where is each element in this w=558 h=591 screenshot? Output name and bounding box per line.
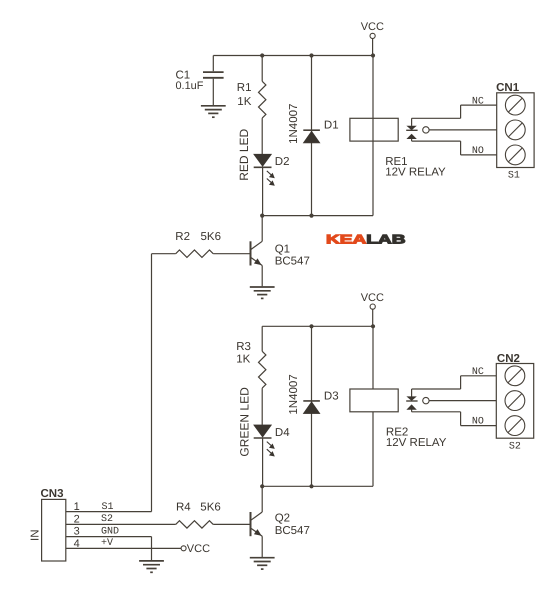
wire NO (RE2 to CN2) [412,412,497,426]
svg-text:1N4007: 1N4007 [288,104,300,144]
label D4 [275,427,290,439]
svg-text:BC547: BC547 [275,525,310,537]
wire top rail stage 2 [262,325,373,327]
label D1 [324,120,339,132]
svg-text:+V: +V [101,538,113,549]
relay RE1 contact (SPDT arm) [406,118,429,141]
label CN3 [41,488,64,500]
value 5K6 (R4) [200,501,220,513]
wire NC (RE1 to CN1) [412,105,497,118]
value 1K (R3) [236,353,250,365]
svg-text:12V RELAY: 12V RELAY [386,437,447,449]
wire relay RE1 coil column [372,56,374,216]
svg-text:D2: D2 [275,156,290,168]
label +V (CN3 pin 4) [101,538,113,549]
svg-text:CN1: CN1 [496,82,520,94]
svg-text:S1: S1 [508,170,520,181]
wire CN3 pin 2 (S2) [66,523,176,525]
pin number 4 (CN3) [74,538,80,550]
svg-text:R1: R1 [237,82,252,94]
value 12V RELAY (RE1) [385,166,446,178]
label CN2 [497,353,520,365]
wire bottom rail stage 1 [262,215,373,217]
svg-text:S2: S2 [101,514,113,525]
value 0.1uF [176,80,204,92]
wire relay RE2 coil column [372,326,374,486]
value 1K (R1) [237,96,251,108]
svg-text:3: 3 [74,526,80,538]
junction dot D1 bottom [309,214,313,218]
svg-text:VCC: VCC [361,21,384,33]
svg-text:5K6: 5K6 [201,231,221,243]
label RE2 [386,426,408,438]
svg-text:0.1uF: 0.1uF [176,80,204,92]
svg-text:RED LED: RED LED [237,128,251,180]
junction dot D3 bottom [309,484,313,488]
svg-text:R4: R4 [176,501,191,513]
label R2 [175,231,190,243]
label Q2 [275,513,290,525]
resistor R2 [176,250,214,257]
svg-text:NO: NO [472,146,484,157]
connector CN3 body [42,499,66,561]
label D3 [324,390,339,402]
label NC (CN1) [472,96,484,107]
LED D2 (red) [254,154,275,215]
junction dot D1 top [309,53,313,57]
KEALAB logo [326,233,406,247]
svg-text:R2: R2 [175,231,190,243]
svg-text:Q1: Q1 [275,243,290,255]
svg-text:1: 1 [74,501,80,513]
connector CN1 [497,93,534,168]
label NO (CN2) [472,417,484,428]
svg-text:NC: NC [472,96,484,107]
value BC547 (Q2) [275,525,310,537]
svg-text:D4: D4 [275,427,290,439]
transistor Q1 BC547 [213,216,262,287]
svg-text:NC: NC [472,367,484,378]
svg-text:D3: D3 [324,390,339,402]
svg-text:Q2: Q2 [275,513,290,525]
label NO (CN1) [472,146,484,157]
wire COM (RE1 to CN1) [429,129,497,131]
label IN (CN3) [29,530,41,542]
ground (C1) [201,106,226,117]
LED D4 (green) [254,425,275,486]
label Q1 [275,243,290,255]
label RE1 [385,156,407,168]
svg-text:VCC: VCC [187,543,210,555]
wire CN3 pin 3 (GND) [66,537,152,561]
label CN1 [496,82,520,94]
wire top rail stage 1 [213,55,373,57]
ground (Q1 emitter) [250,287,275,298]
pin number 1 (CN3) [74,501,80,513]
junction dot D4/Q2 [260,484,264,488]
svg-text:CN2: CN2 [497,353,520,365]
ground (Q2 emitter) [250,558,275,569]
relay RE2 contact (SPDT arm) [406,389,429,412]
label R4 [176,501,191,513]
resistor R3 [259,326,266,425]
svg-text:BC547: BC547 [275,256,310,268]
label S1 (CN3 pin 1) [102,502,114,513]
junction dot VCC/RE2 [371,324,375,328]
svg-text:1K: 1K [236,353,250,365]
svg-text:GND: GND [101,527,119,538]
wire COM (RE2 to CN2) [429,400,496,402]
svg-text:1K: 1K [237,96,251,108]
svg-text:S1: S1 [102,502,114,513]
svg-text:KEALAB: KEALAB [326,233,406,247]
svg-text:5K6: 5K6 [200,501,220,513]
wire CN3 pin 1 (S1) [66,511,152,513]
value 1N4007 (D3) [288,374,300,414]
resistor R1 [259,56,266,155]
svg-text:IN: IN [29,530,41,542]
svg-text:4: 4 [74,538,80,550]
ground (CN3 GND pin) [139,561,164,572]
svg-text:S2: S2 [509,441,521,452]
junction dot VCC/RE1 [371,53,375,57]
capacitor C1 [203,56,224,106]
wire bottom rail stage 2 [262,485,373,487]
wire NO (RE1 to CN1) [412,141,497,155]
junction dot R1 top [260,53,264,57]
transistor Q2 BC547 [213,486,262,557]
pin number 2 (CN3) [74,513,80,525]
svg-text:D1: D1 [324,120,339,132]
relay RE2 coil [350,389,398,412]
diode D1 1N4007 [303,56,320,216]
power flag VCC (CN3 +V) [181,543,210,555]
wire CN3 pin 4 (+V) [66,547,181,549]
svg-text:CN3: CN3 [41,488,64,500]
junction dot D2/Q1 [260,214,264,218]
label S2 (CN3 pin 2) [101,514,113,525]
svg-text:2: 2 [74,513,80,525]
value 1N4007 (D1) [288,104,300,144]
value 12V RELAY (RE2) [386,437,447,449]
svg-text:R3: R3 [236,341,251,353]
wire NC (RE2 to CN2) [412,376,497,389]
svg-text:VCC: VCC [361,292,384,304]
power flag VCC (stage 2) [361,292,384,326]
diode D3 1N4007 [303,326,320,486]
svg-text:12V RELAY: 12V RELAY [385,166,446,178]
svg-text:1N4007: 1N4007 [288,374,300,414]
label RED LED [237,128,251,180]
label S1 (CN1) [508,170,520,181]
junction dot D3 top [309,324,313,328]
label GND (CN3 pin 3) [101,527,119,538]
value 5K6 (R2) [201,231,221,243]
pin number 3 (CN3) [74,526,80,538]
label GREEN LED [237,387,251,457]
label R3 [236,341,251,353]
label R1 [237,82,252,94]
wire S1 line (R2 to CN3 pin 1) [152,254,176,512]
value BC547 (Q1) [275,256,310,268]
svg-text:NO: NO [472,417,484,428]
relay RE1 coil [350,118,398,141]
power flag VCC (stage 1) [361,21,384,55]
label C1 [176,70,191,82]
label D2 [275,156,290,168]
resistor R4 [176,521,214,528]
svg-text:GREEN LED: GREEN LED [237,387,251,457]
connector CN2 [496,364,533,439]
label NC (CN2) [472,367,484,378]
label S2 (CN2) [509,441,521,452]
